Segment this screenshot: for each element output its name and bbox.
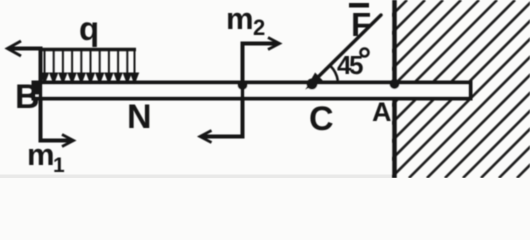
svg-text:45: 45 [337, 50, 363, 80]
wall boundary line [392, 0, 397, 178]
angle arc 45deg [331, 66, 338, 81]
node at m2 dot [238, 80, 248, 90]
svg-text:m: m [226, 1, 254, 36]
moment m1 bottom arrow (pointing right) [39, 135, 74, 147]
svg-text:F: F [351, 6, 371, 43]
beam [34, 83, 471, 99]
svg-text:C: C [309, 100, 334, 138]
svg-text:2: 2 [253, 15, 265, 40]
distributed load q arrows [41, 50, 138, 82]
distributed load q top line [42, 48, 137, 51]
scan artifact: faint bottom edge band [0, 175, 392, 179]
svg-text:A: A [372, 97, 392, 127]
wall hatching [211, 0, 530, 178]
moment m2 couple arm (vertical line) [241, 42, 245, 137]
moment m1 top arrow (pointing left) [8, 41, 43, 56]
node C dot [307, 79, 318, 90]
node B dot [32, 84, 43, 95]
moment m2 top arrow (pointing right) [241, 38, 280, 50]
node A dot [390, 79, 400, 89]
svg-text:N: N [127, 98, 152, 136]
force F arrowhead [308, 74, 323, 87]
svg-text:m: m [27, 137, 55, 172]
svg-text:B: B [15, 78, 40, 116]
force F line [313, 15, 381, 82]
svg-text:1: 1 [53, 154, 65, 177]
moment m2 bottom arrow (pointing left) [200, 131, 245, 143]
moment m1 couple arm (vertical line through B) [39, 47, 43, 141]
svg-text:q: q [79, 10, 99, 47]
